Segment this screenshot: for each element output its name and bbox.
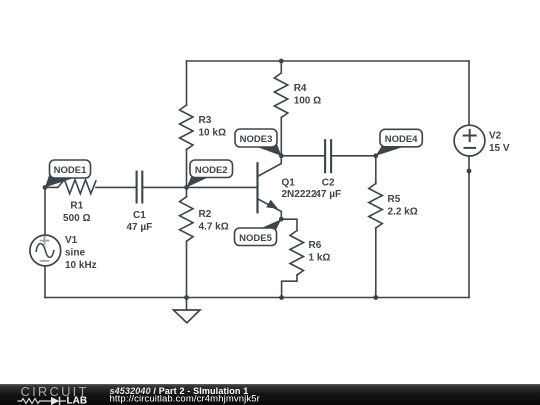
wire V2 bottom lead: [468, 156, 470, 298]
svg-text:500 Ω: 500 Ω: [63, 213, 90, 224]
wire left rail (node1 down to V1): [44, 187, 46, 235]
footer logo diode: [51, 397, 59, 405]
node NODE2 junction: [184, 185, 189, 190]
transistor Q1 base bar: [256, 163, 258, 212]
wire V1 to bottom rail: [44, 266, 46, 298]
node R6 bottom junction: [279, 295, 284, 300]
svg-text:NODE5: NODE5: [239, 233, 272, 244]
wire bottom rail: [45, 297, 469, 299]
source V1 circle: [30, 235, 61, 266]
wire input rail (node1 to R1): [45, 186, 58, 188]
wire R3 branch bottom lead: [186, 150, 188, 188]
svg-text:R4: R4: [294, 83, 307, 94]
node NODE1 junction: [43, 185, 48, 190]
svg-text:47 µF: 47 µF: [315, 189, 341, 200]
svg-text:R3: R3: [199, 115, 212, 126]
transistor Q1 emitter arrow: [266, 200, 278, 209]
resistor R2: [180, 197, 194, 242]
resistor R3: [180, 105, 194, 150]
footer bar: [0, 384, 540, 405]
svg-text:LAB: LAB: [67, 396, 88, 405]
wire R2 branch bottom lead: [186, 241, 188, 297]
source V1 plus: [41, 237, 49, 245]
svg-text:R5: R5: [388, 194, 401, 205]
capacitor C1: [137, 172, 143, 203]
source V2 minus: [465, 147, 476, 149]
ground triangle: [174, 310, 201, 323]
resistor R5: [369, 184, 383, 229]
node label callouts: [45, 129, 422, 246]
svg-text:V2: V2: [489, 130, 502, 141]
svg-text:2.2 kΩ: 2.2 kΩ: [388, 207, 418, 218]
svg-text:15 V: 15 V: [489, 143, 510, 154]
label C1: [127, 210, 153, 233]
node R5 bottom junction: [373, 295, 378, 300]
transistor Q1 collector: [258, 156, 282, 177]
node label NODE2: [187, 160, 233, 187]
resistor R4: [274, 73, 288, 118]
wire R4 branch top lead: [280, 61, 282, 73]
node V2 minus terminal: [467, 169, 472, 174]
source V2 plus: [464, 130, 476, 141]
svg-text:R2: R2: [199, 209, 212, 220]
node label NODE1: [45, 160, 91, 187]
svg-text:http://circuitlab.com/cr4mhjmv: http://circuitlab.com/cr4mhjmvnjk5r: [110, 394, 260, 405]
transistor Q1 emitter: [258, 199, 282, 220]
svg-text:R1: R1: [70, 201, 83, 212]
source V1 sine: [36, 244, 54, 258]
svg-text:Q1: Q1: [282, 177, 296, 188]
wire R6 bottom jog: [282, 275, 297, 298]
svg-text:NODE3: NODE3: [240, 134, 273, 145]
svg-text:100 Ω: 100 Ω: [294, 96, 321, 107]
svg-text:NODE4: NODE4: [385, 134, 418, 145]
label R1: [63, 201, 90, 225]
wire R3 branch top lead: [186, 61, 188, 105]
wire emitter to R6: [281, 219, 297, 230]
svg-text:NODE2: NODE2: [195, 165, 228, 176]
node NODE4 junction: [373, 153, 378, 158]
node A: R4 top junction: [279, 59, 284, 64]
wire R5 top lead: [375, 156, 377, 184]
node NODE3 junction: [279, 153, 284, 158]
svg-text:10 kHz: 10 kHz: [65, 260, 97, 271]
svg-text:4.7 kΩ: 4.7 kΩ: [199, 221, 229, 232]
node NODE5 junction: [279, 217, 284, 222]
wire collector to C2: [281, 155, 325, 157]
wire top rail: [187, 60, 470, 62]
wire R4 branch bottom lead: [280, 118, 282, 156]
wire C2 to node4: [331, 155, 376, 157]
wire R5 bottom lead: [375, 228, 377, 298]
svg-text:V1: V1: [65, 235, 78, 246]
svg-text:2N2222: 2N2222: [282, 189, 317, 200]
wire C1 to base: [142, 186, 257, 188]
source V2 circle: [454, 125, 485, 156]
resistor R1: [58, 180, 96, 194]
svg-text:NODE1: NODE1: [54, 165, 87, 176]
node label NODE3: [235, 129, 281, 156]
footer logo circuit line: [18, 397, 67, 405]
svg-text:C2: C2: [322, 177, 335, 188]
svg-text:47 µF: 47 µF: [127, 222, 153, 233]
wire R1 to C1: [96, 186, 137, 188]
svg-text:sine: sine: [65, 248, 85, 259]
svg-text:10 kΩ: 10 kΩ: [199, 128, 226, 139]
resistor R6: [290, 231, 304, 276]
label C2: [315, 177, 341, 200]
node label NODE4: [376, 129, 423, 156]
svg-text:1 kΩ: 1 kΩ: [309, 253, 331, 264]
node label NODE5: [235, 219, 282, 245]
node ground junction: [184, 295, 189, 300]
capacitor C2: [325, 140, 331, 172]
svg-text:C1: C1: [133, 210, 146, 221]
svg-text:R6: R6: [309, 240, 322, 251]
wire R2 branch top lead: [186, 187, 188, 196]
wire V2 top lead: [468, 61, 470, 125]
ground stem: [186, 298, 188, 311]
source V1 minus: [41, 260, 49, 262]
